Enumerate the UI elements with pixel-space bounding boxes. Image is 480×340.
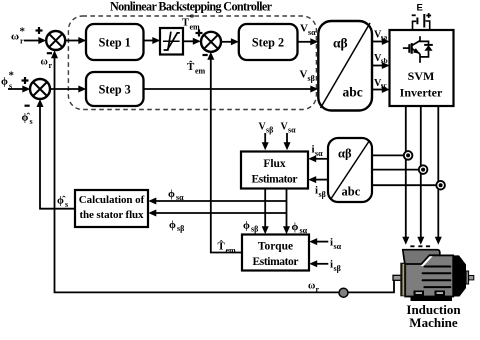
node phis* label — [1, 70, 15, 91]
svg-text:T: T — [182, 18, 189, 29]
wire Step2 to ab block — [298, 38, 319, 45]
summer S1 — [46, 31, 65, 50]
wire S2 to Step2 — [221, 38, 239, 45]
wire Vsa stub arrow — [284, 133, 291, 150]
svg-text:ω: ω — [308, 281, 315, 292]
terminal dashes above motor — [410, 245, 430, 247]
node isb label (flux) — [315, 185, 326, 200]
motor right shaft — [466, 271, 469, 284]
svg-text:ϕ: ϕ — [292, 221, 299, 233]
wire phase line a — [402, 106, 409, 245]
block Flux Estimator — [241, 152, 308, 189]
wire phis* input arrow — [8, 86, 30, 93]
wire flux to torque phi alpha — [283, 188, 290, 234]
svg-text:sβ: sβ — [177, 224, 184, 233]
plus sign of E — [426, 13, 431, 18]
transform block ab/abc 1 — [318, 21, 372, 111]
node Tem* label — [182, 13, 200, 32]
transform block ab/abc 2 — [328, 138, 372, 202]
wire isa stub to torque — [309, 238, 328, 245]
wire ab2 to flux isb — [308, 176, 328, 183]
wire Vsb stub arrow — [262, 133, 269, 150]
svg-text:Step 2: Step 2 — [252, 36, 284, 50]
svg-text:sα: sα — [176, 193, 184, 202]
motor left end cap — [400, 263, 406, 297]
node wr feedback label — [41, 57, 53, 71]
svg-text:ϕ: ϕ — [243, 220, 250, 232]
svg-text:Machine: Machine — [409, 315, 458, 330]
wire phase line c — [435, 106, 442, 245]
svg-text:αβ: αβ — [333, 36, 348, 51]
svg-text:abc: abc — [343, 85, 363, 100]
wire S3 to Step3 — [50, 86, 86, 93]
svg-text:sβ: sβ — [308, 74, 315, 83]
wire ab1 to SVM phase c — [372, 86, 390, 93]
plus sign at summer S1 — [36, 27, 43, 34]
node phis hat label (calc output) — [57, 195, 68, 210]
svg-text:em: em — [195, 67, 206, 76]
svg-text:em: em — [226, 246, 237, 255]
wire Step1 to saturation — [144, 37, 161, 44]
node Vsb stub label — [259, 122, 274, 135]
svg-text:Calculation of: Calculation of — [79, 194, 145, 206]
transistor IGBT with diode — [403, 36, 433, 63]
svg-text:s: s — [30, 117, 33, 126]
svg-text:s: s — [65, 200, 68, 209]
wire saturation to summer S2 — [183, 38, 201, 45]
svg-text:r: r — [20, 37, 24, 46]
saturation limiter block — [160, 28, 183, 55]
wire S1 to Step1 — [65, 37, 86, 44]
minus sign below S1 — [47, 52, 52, 54]
node Vsa stub label — [281, 122, 297, 135]
svg-text:Step 3: Step 3 — [99, 83, 131, 97]
node Vsb label (beta) — [300, 69, 315, 84]
svg-text:αβ: αβ — [338, 147, 352, 161]
block Step 2 — [239, 24, 298, 60]
motor body — [405, 255, 453, 296]
svg-text:Inverter: Inverter — [400, 86, 443, 100]
plus sign at summer S2 — [196, 30, 203, 37]
svg-text:Flux: Flux — [263, 158, 286, 170]
svg-text:sβ: sβ — [251, 225, 258, 234]
svg-text:r: r — [49, 61, 53, 70]
node phi salpha label (torque) — [292, 221, 308, 235]
motor terminal box — [403, 250, 440, 264]
current sensor b — [419, 165, 428, 174]
wire Step3 to ab block — [144, 86, 319, 93]
node Vsc label — [374, 78, 388, 90]
wire ab2 to sensor b — [372, 169, 423, 171]
node Vsa label — [374, 30, 388, 42]
svg-text:abc: abc — [342, 185, 361, 199]
svg-text:T̂: T̂ — [187, 60, 195, 73]
svg-text:SVM: SVM — [408, 69, 435, 83]
svg-text:Step 1: Step 1 — [99, 36, 131, 50]
plus sign at summer S3 — [22, 77, 29, 84]
current sensor c — [436, 181, 445, 190]
wire ab1 to SVM phase a — [372, 38, 390, 45]
svg-text:*: * — [9, 70, 15, 82]
speed sensor dot — [339, 288, 348, 297]
node Tem hat label (torque output) — [218, 240, 237, 255]
block Step 1 — [86, 24, 144, 60]
motor left shaft — [393, 275, 402, 280]
svg-text:V: V — [300, 23, 308, 35]
wire ab2 to flux isa — [308, 155, 328, 162]
summer S3 — [30, 79, 50, 99]
svg-text:T̂: T̂ — [218, 240, 226, 253]
wire wr* input arrow — [24, 37, 46, 44]
svg-text:E: E — [417, 3, 423, 14]
node wr label (bottom) — [308, 281, 320, 295]
wire phi beta to calculation — [148, 210, 286, 217]
node phi salpha label (h-line) — [168, 188, 184, 202]
svg-text:ϕ: ϕ — [168, 188, 175, 200]
svg-text:ϕ: ϕ — [1, 76, 8, 88]
induction machine graphic — [393, 250, 474, 301]
motor feet — [414, 291, 425, 297]
svg-text:sβ: sβ — [334, 264, 341, 273]
block Calculation of the stator flux — [75, 190, 148, 227]
wire phase line b — [417, 106, 424, 245]
wire ab2 to sensor c — [372, 184, 441, 186]
motor right end bell — [453, 255, 466, 296]
svg-text:ϕ: ϕ — [169, 219, 176, 231]
current sensor a — [404, 151, 413, 160]
node isb label (torque) — [330, 259, 341, 274]
wire flux to torque phi beta — [262, 188, 269, 234]
block SVM Inverter — [390, 30, 454, 106]
svg-text:sα: sα — [334, 242, 342, 251]
dc supply symbol — [413, 14, 430, 30]
wire isb stub to torque — [309, 260, 328, 267]
svg-text:sα: sα — [315, 149, 323, 158]
summer S2 — [201, 32, 221, 52]
block Step 3 — [86, 72, 144, 106]
minus sign below S3 — [25, 105, 30, 107]
svg-text:sβ: sβ — [319, 190, 326, 199]
node phi sbeta label (h-line) — [169, 219, 184, 233]
wire phi alpha to calculation — [148, 198, 286, 205]
svg-text:Estimator: Estimator — [253, 256, 299, 268]
node Tem hat label (near S2) — [187, 60, 206, 75]
wire calculation to S3 — [37, 99, 76, 209]
motor base — [411, 296, 453, 301]
wire torque estimator to S2 — [207, 52, 242, 253]
svg-text:Nonlinear Backstepping Control: Nonlinear Backstepping Controller — [110, 0, 273, 14]
svg-text:ω: ω — [41, 57, 48, 68]
block Torque Estimator — [242, 235, 309, 271]
minus sign below-left of S2 — [203, 54, 208, 56]
dashed controller boundary — [68, 16, 316, 110]
svg-text:V: V — [300, 69, 308, 81]
node Vsb label — [374, 53, 388, 65]
motor highlight — [421, 256, 433, 266]
svg-text:sβ: sβ — [266, 126, 273, 135]
svg-text:sα: sα — [288, 126, 296, 135]
node isa label (torque) — [330, 237, 342, 252]
node isa label (flux) — [312, 144, 324, 159]
motor fins — [423, 267, 451, 288]
svg-text:sα: sα — [308, 28, 316, 37]
wire speed feedback — [51, 50, 400, 292]
svg-text:ω: ω — [11, 31, 19, 43]
svg-text:the stator flux: the stator flux — [80, 209, 145, 221]
node Vsa label (alpha) — [300, 23, 316, 38]
svg-text:Torque: Torque — [258, 241, 293, 253]
wire ab2 to sensor a — [372, 154, 408, 156]
node wr* label — [11, 26, 26, 46]
node phis hat label (near S3) — [22, 112, 33, 127]
wire ab1 to SVM phase b — [372, 62, 390, 69]
svg-text:r: r — [316, 285, 320, 294]
node phi sbeta label (torque) — [243, 220, 258, 234]
minus sign of E — [412, 14, 416, 16]
svg-text:Estimator: Estimator — [252, 174, 298, 186]
